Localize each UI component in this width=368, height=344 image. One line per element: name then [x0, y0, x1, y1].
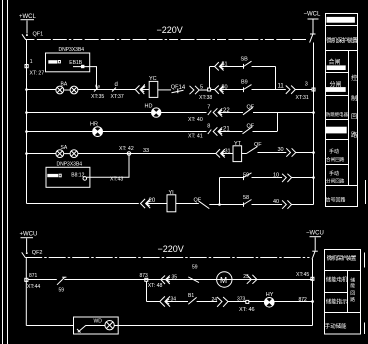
connector chevrons wire 4	[135, 85, 139, 94]
wire HY to feeder, wire 872	[274, 301, 312, 303]
svg-text:XT:43: XT:43	[110, 176, 123, 182]
right breaker switch bottom	[312, 250, 318, 252]
left feeder wire top circuit	[26, 40, 28, 204]
svg-text:XT:31: XT:31	[296, 95, 309, 101]
svg-text:合闸: 合闸	[329, 58, 341, 66]
motor M	[217, 272, 232, 287]
terminal square on wire	[81, 65, 84, 68]
connector chevrons wire 34	[160, 296, 165, 306]
svg-text:33: 33	[143, 148, 149, 154]
svg-text:HD: HD	[145, 104, 153, 110]
svg-text:11: 11	[278, 83, 285, 89]
svg-text:373: 373	[237, 296, 246, 302]
svg-text:手动: 手动	[329, 148, 339, 155]
wire from YC	[158, 89, 171, 91]
wire to join	[253, 112, 314, 114]
lower branch wire 40	[220, 204, 244, 206]
breaker QF1 switch	[26, 34, 28, 36]
lamp HR	[93, 127, 103, 137]
wire row YI left	[27, 203, 139, 205]
svg-text:B8:12: B8:12	[71, 173, 84, 179]
svg-text:872: 872	[299, 297, 308, 303]
connector plug circle 2	[70, 86, 78, 94]
coil YT	[233, 146, 242, 162]
wire between plugs	[64, 153, 70, 155]
svg-text:XT:38: XT:38	[199, 95, 212, 101]
svg-text:−220V: −220V	[157, 25, 183, 35]
wire XT:43 from box to row SA	[87, 154, 129, 178]
wire to B9	[220, 89, 244, 91]
svg-text:3: 3	[305, 82, 308, 88]
wire from +WCU	[26, 238, 28, 252]
lamp HD	[152, 108, 161, 117]
svg-text:871: 871	[29, 273, 38, 279]
upper branch wire	[210, 66, 215, 68]
-220V bus dash-dot bottom	[25, 257, 309, 259]
connector chevrons wire 22	[213, 108, 217, 116]
svg-text:XT: 27: XT: 27	[30, 71, 45, 77]
wire from YI	[176, 203, 199, 205]
branch join vertical	[275, 67, 277, 90]
switch inside box	[78, 325, 86, 332]
svg-text:XT:45: XT:45	[296, 272, 309, 278]
svg-text:微机保护装置: 微机保护装置	[327, 254, 357, 262]
connector plug circle 2	[70, 150, 78, 158]
svg-text:14: 14	[179, 85, 186, 91]
svg-text:XT:44: XT:44	[27, 284, 40, 290]
aux contact QF right of YT	[242, 153, 247, 155]
svg-text:XT:37: XT:37	[111, 94, 124, 100]
svg-text:B9: B9	[241, 80, 248, 86]
svg-text:DNP3X3B4: DNP3X3B4	[59, 47, 85, 53]
svg-text:信号回路: 信号回路	[326, 196, 346, 203]
wire from +WCL	[26, 21, 28, 34]
bottom legend table frame	[325, 250, 361, 335]
right feeder wire top circuit	[313, 43, 315, 205]
svg-text:30: 30	[278, 147, 284, 153]
column divider	[348, 51, 350, 186]
connector chevrons wire 21	[213, 127, 217, 135]
box internal terminal block	[47, 174, 58, 177]
svg-text:59: 59	[192, 265, 198, 271]
svg-text:59: 59	[59, 287, 65, 293]
svg-text:QF: QF	[254, 142, 262, 148]
connector chevrons >> wire 30	[286, 148, 290, 156]
svg-text:7: 7	[207, 104, 210, 110]
lamp WD	[105, 321, 114, 330]
svg-text:QF1: QF1	[33, 32, 44, 38]
svg-text:20: 20	[149, 198, 156, 204]
wire row SA to YT	[78, 153, 216, 155]
svg-text:手动储能: 手动储能	[325, 322, 347, 330]
terminal bar -WCU	[310, 236, 322, 238]
lamp HY	[265, 298, 275, 308]
svg-text:SB: SB	[241, 56, 249, 62]
vertical from node 873	[146, 281, 148, 301]
svg-text:−WCL: −WCL	[304, 12, 322, 18]
svg-text:XT: 42: XT: 42	[119, 146, 134, 152]
wire row HD right	[161, 112, 207, 114]
main row1: connector chevrons wire 50	[211, 89, 215, 91]
svg-text:储能指示: 储能指示	[326, 297, 348, 305]
HY row wire	[147, 301, 160, 303]
wire to SB	[220, 66, 244, 68]
wire row1 to terminals	[78, 89, 136, 91]
connector chevrons wire 51	[215, 62, 219, 70]
svg-text:+WCL: +WCL	[19, 14, 37, 20]
svg-text:HY: HY	[266, 292, 274, 298]
svg-text:回: 回	[351, 114, 357, 121]
junction dot	[25, 88, 28, 91]
wire to coil YI	[146, 203, 167, 205]
svg-text:5: 5	[200, 85, 203, 91]
wire to coil YC	[141, 89, 150, 91]
wire inside box	[86, 325, 105, 327]
adjacent table edge stubs at right margin	[365, 180, 367, 204]
wire from EB1B to row 1	[73, 67, 97, 90]
connector chevrons >> wire 24	[217, 297, 222, 307]
pin circle	[83, 177, 87, 181]
svg-text:+WCU: +WCU	[20, 232, 38, 238]
svg-text:XT: 48: XT: 48	[148, 283, 163, 289]
bottom row wire	[26, 325, 73, 327]
svg-text:XT: 46: XT: 46	[239, 307, 255, 313]
wire row HD	[27, 112, 152, 114]
protection box DNP3X3B4 (upper)	[46, 53, 90, 72]
box internal terminal block	[48, 60, 57, 63]
wire row1 left	[27, 89, 56, 91]
svg-text:8: 8	[207, 123, 210, 129]
connector chevrons wire 35	[161, 276, 165, 285]
motor row wire	[148, 279, 161, 281]
terminal XT:31	[312, 88, 315, 91]
row 871 wire	[28, 279, 57, 281]
svg-text:1: 1	[30, 59, 33, 65]
-220V bus dash-dot top	[25, 39, 306, 41]
svg-text:防跳继电器: 防跳继电器	[326, 111, 349, 118]
connector plug circle 1	[56, 86, 64, 94]
protection box DNP3X3B4 (lower)	[46, 167, 90, 187]
terminal bar +WCU	[21, 237, 34, 239]
upper branch wire 10	[220, 177, 244, 179]
top legend table frame	[326, 14, 358, 207]
svg-text:XT:35: XT:35	[91, 94, 104, 100]
wire from -WCU	[314, 237, 316, 250]
branch vertical	[219, 178, 221, 205]
connector chevrons wire 20	[141, 199, 146, 208]
svg-text:40: 40	[273, 199, 279, 205]
svg-text:M: M	[220, 275, 227, 285]
connector chevrons >> wire 5	[190, 86, 194, 94]
svg-text:25: 25	[243, 274, 249, 280]
breaker QF2 switch	[26, 252, 28, 254]
svg-text:QF: QF	[247, 124, 255, 130]
svg-text:微机保护装置: 微机保护装置	[326, 37, 358, 45]
wire row SA left	[27, 153, 56, 155]
svg-text:路: 路	[350, 296, 355, 303]
connector chevrons >> wire 40	[282, 200, 286, 208]
right breaker switch	[310, 33, 316, 35]
connector chevrons >> wire 25	[247, 275, 252, 284]
svg-text:−220V: −220V	[158, 244, 184, 254]
wire from motor	[232, 279, 247, 281]
cell D bar	[326, 127, 347, 134]
svg-text:10: 10	[273, 172, 279, 178]
connector chevrons >> wire 3	[286, 86, 290, 94]
svg-text:XT: 40: XT: 40	[188, 117, 203, 123]
branch wire up	[209, 67, 211, 89]
svg-text:58: 58	[243, 195, 249, 201]
svg-text:合闸回路: 合闸回路	[326, 156, 345, 163]
svg-text:XT: 41: XT: 41	[188, 133, 203, 139]
terminal bar -WCL	[308, 18, 319, 20]
svg-text:DNP3X3B4: DNP3X3B4	[57, 161, 83, 167]
svg-text:B1: B1	[188, 293, 194, 299]
svg-text:WD: WD	[94, 319, 103, 325]
svg-text:能: 能	[350, 282, 355, 289]
wire to lamp HY	[249, 301, 265, 303]
wire to join	[253, 131, 278, 133]
svg-text:分闸回路: 分闸回路	[326, 177, 345, 184]
right feeder bottom circuit	[312, 259, 314, 326]
svg-text:d: d	[115, 82, 118, 88]
drawing frame outer left border	[2, 0, 4, 344]
wire between plugs	[64, 89, 70, 91]
wire row HR right	[103, 131, 207, 133]
coil YI	[167, 195, 176, 212]
wire from box to right feeder	[114, 325, 312, 327]
contact 59 (row 871)	[57, 278, 64, 285]
terminal bar +WCL	[21, 19, 35, 21]
svg-text:路: 路	[351, 131, 358, 139]
svg-text:QF2: QF2	[32, 250, 43, 256]
wire upper branch right	[252, 66, 276, 68]
svg-text:回: 回	[350, 290, 355, 296]
wire to node 873	[64, 279, 312, 281]
join vertical HD/HR	[277, 113, 279, 132]
svg-text:手动: 手动	[329, 170, 339, 177]
wire row HR	[27, 131, 93, 133]
svg-text:EB1B: EB1B	[69, 60, 82, 66]
left feeder bottom circuit	[25, 258, 27, 326]
terminal XT:38	[208, 88, 211, 91]
drawing frame left border	[7, 0, 9, 344]
connector plug circle 1	[56, 150, 64, 158]
wire row1 right	[252, 89, 286, 91]
connector chevrons >> wire 10	[282, 174, 286, 182]
svg-text:控: 控	[351, 74, 357, 82]
wire 30 to right feeder	[258, 152, 287, 154]
wire from -WCL	[312, 20, 314, 34]
coil YC	[149, 81, 158, 97]
wire to branch node	[209, 204, 219, 206]
connector chevrons wire 31	[216, 149, 220, 157]
title highlight block	[327, 17, 355, 23]
svg-text:储能电机: 储能电机	[326, 276, 348, 284]
svg-text:储: 储	[350, 276, 355, 283]
svg-text:制: 制	[351, 94, 357, 102]
terminal XT:27	[25, 65, 28, 68]
svg-text:24: 24	[212, 297, 218, 303]
column divider	[347, 271, 349, 313]
svg-text:−WCU: −WCU	[306, 230, 324, 236]
lamp box	[74, 317, 119, 334]
